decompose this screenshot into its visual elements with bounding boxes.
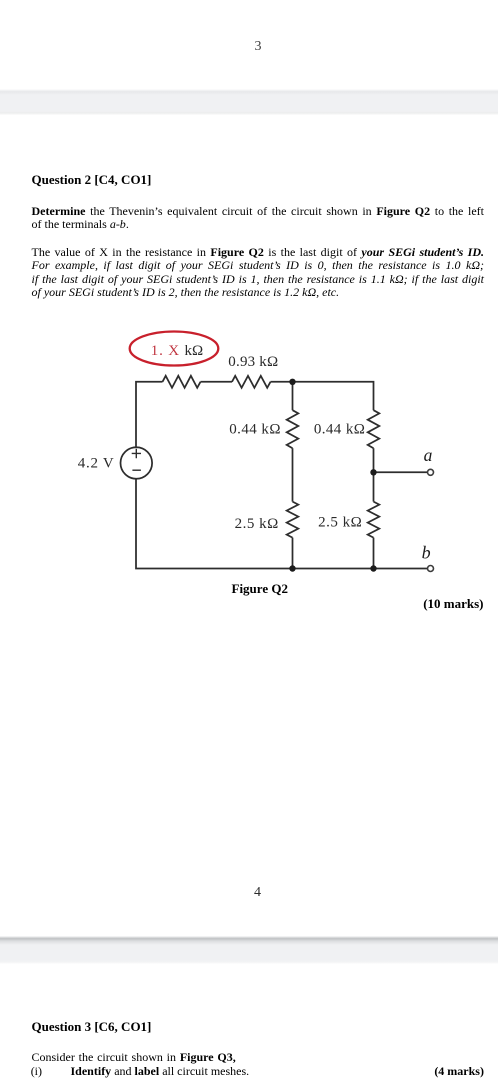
wire: R4 to node a junction xyxy=(373,448,375,501)
figure caption xyxy=(232,581,288,597)
wire: top node down to R3 xyxy=(292,382,294,410)
separator 1 xyxy=(0,89,498,115)
svg-text:2.5 kΩ: 2.5 kΩ xyxy=(318,515,362,531)
wire: source - terminal down, bottom wire to terminal b xyxy=(136,479,427,569)
resistor R6 2.5 kOhm (right branch) xyxy=(368,502,380,538)
resistor R2 0.93 kOhm (horizontal) xyxy=(232,376,270,388)
label: 2.5 kOhm (right) xyxy=(318,515,362,531)
marks for question 2 xyxy=(384,596,484,612)
node: bottom right junction xyxy=(370,565,376,571)
label: 0.93 kOhm xyxy=(228,354,278,370)
svg-text:0.44 kΩ: 0.44 kΩ xyxy=(229,422,281,438)
terminal b (open circle) xyxy=(428,566,434,572)
wire: between R1 and R2 xyxy=(201,381,233,383)
svg-text:kΩ: kΩ xyxy=(185,343,204,359)
paragraph 1 xyxy=(32,205,485,232)
resistor R1 1.X kOhm (horizontal) xyxy=(163,376,201,388)
label: 2.5 kOhm (middle) xyxy=(235,516,279,532)
svg-text:4.2 V: 4.2 V xyxy=(78,455,115,471)
separator 2 xyxy=(0,936,498,964)
label: terminal b xyxy=(422,542,431,562)
voltage source V1 4.2 V xyxy=(121,447,153,479)
paragraph 2 xyxy=(32,246,485,299)
page 4 number xyxy=(254,885,261,901)
label: terminal a xyxy=(424,445,433,465)
annotation: red ellipse around 1.X kOhm xyxy=(130,332,219,366)
node: top junction xyxy=(289,379,295,385)
svg-text:0.44 kΩ: 0.44 kΩ xyxy=(314,421,365,437)
svg-text:b: b xyxy=(422,542,431,562)
Question 3 heading xyxy=(32,1019,152,1035)
resistor R5 2.5 kOhm (middle branch) xyxy=(287,502,299,538)
svg-text:0.93 kΩ: 0.93 kΩ xyxy=(228,354,278,370)
wire: node a to terminal a xyxy=(374,471,428,473)
question 3 line 1 xyxy=(32,1051,485,1064)
wire: top-left corner, left branch down to source + terminal xyxy=(136,382,163,448)
wire: R2 to top node xyxy=(271,381,293,383)
wire: R6 to bottom wire xyxy=(373,538,375,569)
svg-text:2.5 kΩ: 2.5 kΩ xyxy=(235,516,279,532)
terminal a (open circle) xyxy=(428,469,434,475)
svg-text:a: a xyxy=(424,445,433,465)
resistor R4 0.44 kOhm (right branch) xyxy=(368,410,380,448)
label: 0.44 kOhm (right) xyxy=(314,421,365,437)
wire: top node to top-right corner, down to R4 xyxy=(293,382,374,410)
wire: R3 to R5 xyxy=(292,448,294,501)
Question 2 heading xyxy=(32,172,152,188)
resistor R3 0.44 kOhm (middle branch) xyxy=(287,410,299,448)
question 3 item (i) xyxy=(31,1065,484,1078)
wire: R5 to bottom wire xyxy=(292,538,294,569)
label: 4.2 V xyxy=(78,455,115,471)
page 3 number xyxy=(255,39,262,55)
svg-text:1. X: 1. X xyxy=(151,343,180,359)
node: bottom middle junction xyxy=(289,565,295,571)
node: a junction xyxy=(370,469,376,475)
label: 1. X kOhm xyxy=(151,343,203,359)
label: 0.44 kOhm (middle) xyxy=(229,422,281,438)
